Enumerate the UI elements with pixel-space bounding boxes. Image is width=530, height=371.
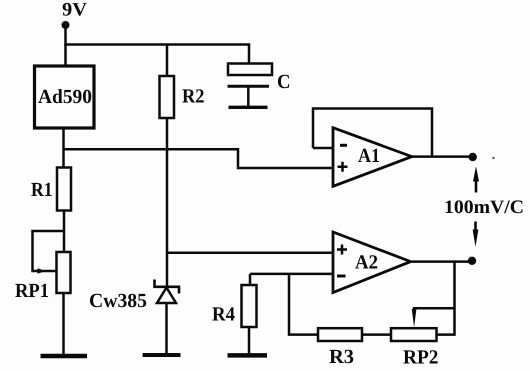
- svg-text:RP1: RP1: [15, 280, 49, 302]
- svg-text:A1: A1: [358, 145, 380, 167]
- ground (C): [229, 106, 268, 109]
- svg-text:RP2: RP2: [403, 347, 439, 369]
- ground (Cw385): [143, 353, 181, 357]
- wire A1 output: [412, 155, 470, 158]
- potentiometer RP2: [391, 328, 437, 341]
- wire divider node to A2 noninverting input: [167, 251, 332, 254]
- op-amp A1 inverting pin mark: [340, 144, 347, 147]
- svg-text:R2: R2: [182, 86, 205, 108]
- wire A2 inverting node down to R3: [289, 274, 318, 335]
- resistor R4: [242, 285, 257, 327]
- svg-text:R4: R4: [212, 304, 235, 326]
- wire C to ground: [247, 87, 250, 106]
- wire R1 to RP1: [63, 211, 66, 253]
- wire A2 output: [411, 260, 469, 263]
- arrow down to A2 output: [474, 222, 477, 232]
- op-amp A2 noninverting pin mark: [337, 245, 347, 255]
- ground (R4): [228, 353, 268, 358]
- potentiometer RP1: [57, 252, 71, 293]
- zener diode Cw385 anode triangle: [157, 288, 176, 304]
- node A1 output dot: [469, 153, 477, 161]
- svg-text:A2: A2: [355, 252, 378, 274]
- svg-text:C: C: [277, 71, 291, 93]
- svg-text:9V: 9V: [62, 0, 87, 21]
- wire R3 to RP2: [362, 333, 391, 336]
- wire rail to capacitor C: [248, 45, 251, 65]
- wire Ad590 to node A: [62, 128, 65, 169]
- node A2 output dot: [468, 257, 476, 265]
- svg-text:R1: R1: [31, 179, 53, 201]
- wire A2 output feedback down to RP2: [437, 262, 455, 335]
- svg-text:Ad590: Ad590: [38, 86, 92, 108]
- op-amp A2: [333, 232, 411, 293]
- svg-text:100mV/C: 100mV/C: [444, 197, 524, 218]
- wire Cw385 to ground: [165, 303, 168, 354]
- resistor R2: [160, 76, 175, 118]
- resistor R1: [57, 168, 71, 211]
- op-amp A1: [333, 128, 412, 187]
- wire A2 inverting node to R4: [249, 274, 252, 285]
- capacitor C bottom plate: [228, 85, 270, 88]
- sensor U1 Ad590: [35, 66, 95, 128]
- resistor R3: [318, 328, 362, 341]
- zener diode Cw385 cathode bar: [155, 280, 180, 294]
- op-amp A2 inverting pin mark: [337, 275, 346, 278]
- wire A1 feedback loop: [313, 109, 432, 157]
- RP2 wiper arm: [414, 308, 455, 311]
- wire R4 to ground: [248, 327, 251, 355]
- svg-text:R3: R3: [329, 346, 354, 368]
- ground (RP1): [41, 354, 88, 359]
- arrow up to A1 output: [475, 180, 478, 193]
- wire R2 down to Cw385: [166, 118, 169, 286]
- op-amp A1 noninverting pin mark: [338, 162, 348, 172]
- wire 9V down to Ad590: [64, 27, 67, 65]
- wire node A to A1 noninverting input: [64, 149, 333, 168]
- wire A2 inverting input: [250, 273, 333, 276]
- wire A1 inverting input: [313, 147, 333, 150]
- wire RP1 to ground: [62, 293, 65, 355]
- svg-text:Cw385: Cw385: [89, 290, 147, 312]
- stray mark: [492, 157, 494, 159]
- capacitor C top plate: [228, 64, 272, 76]
- RP1 wiper arm: [33, 231, 65, 271]
- wire rail to R2: [166, 45, 169, 77]
- node 9V terminal dot: [62, 21, 70, 29]
- wire +9V rail: [64, 43, 250, 46]
